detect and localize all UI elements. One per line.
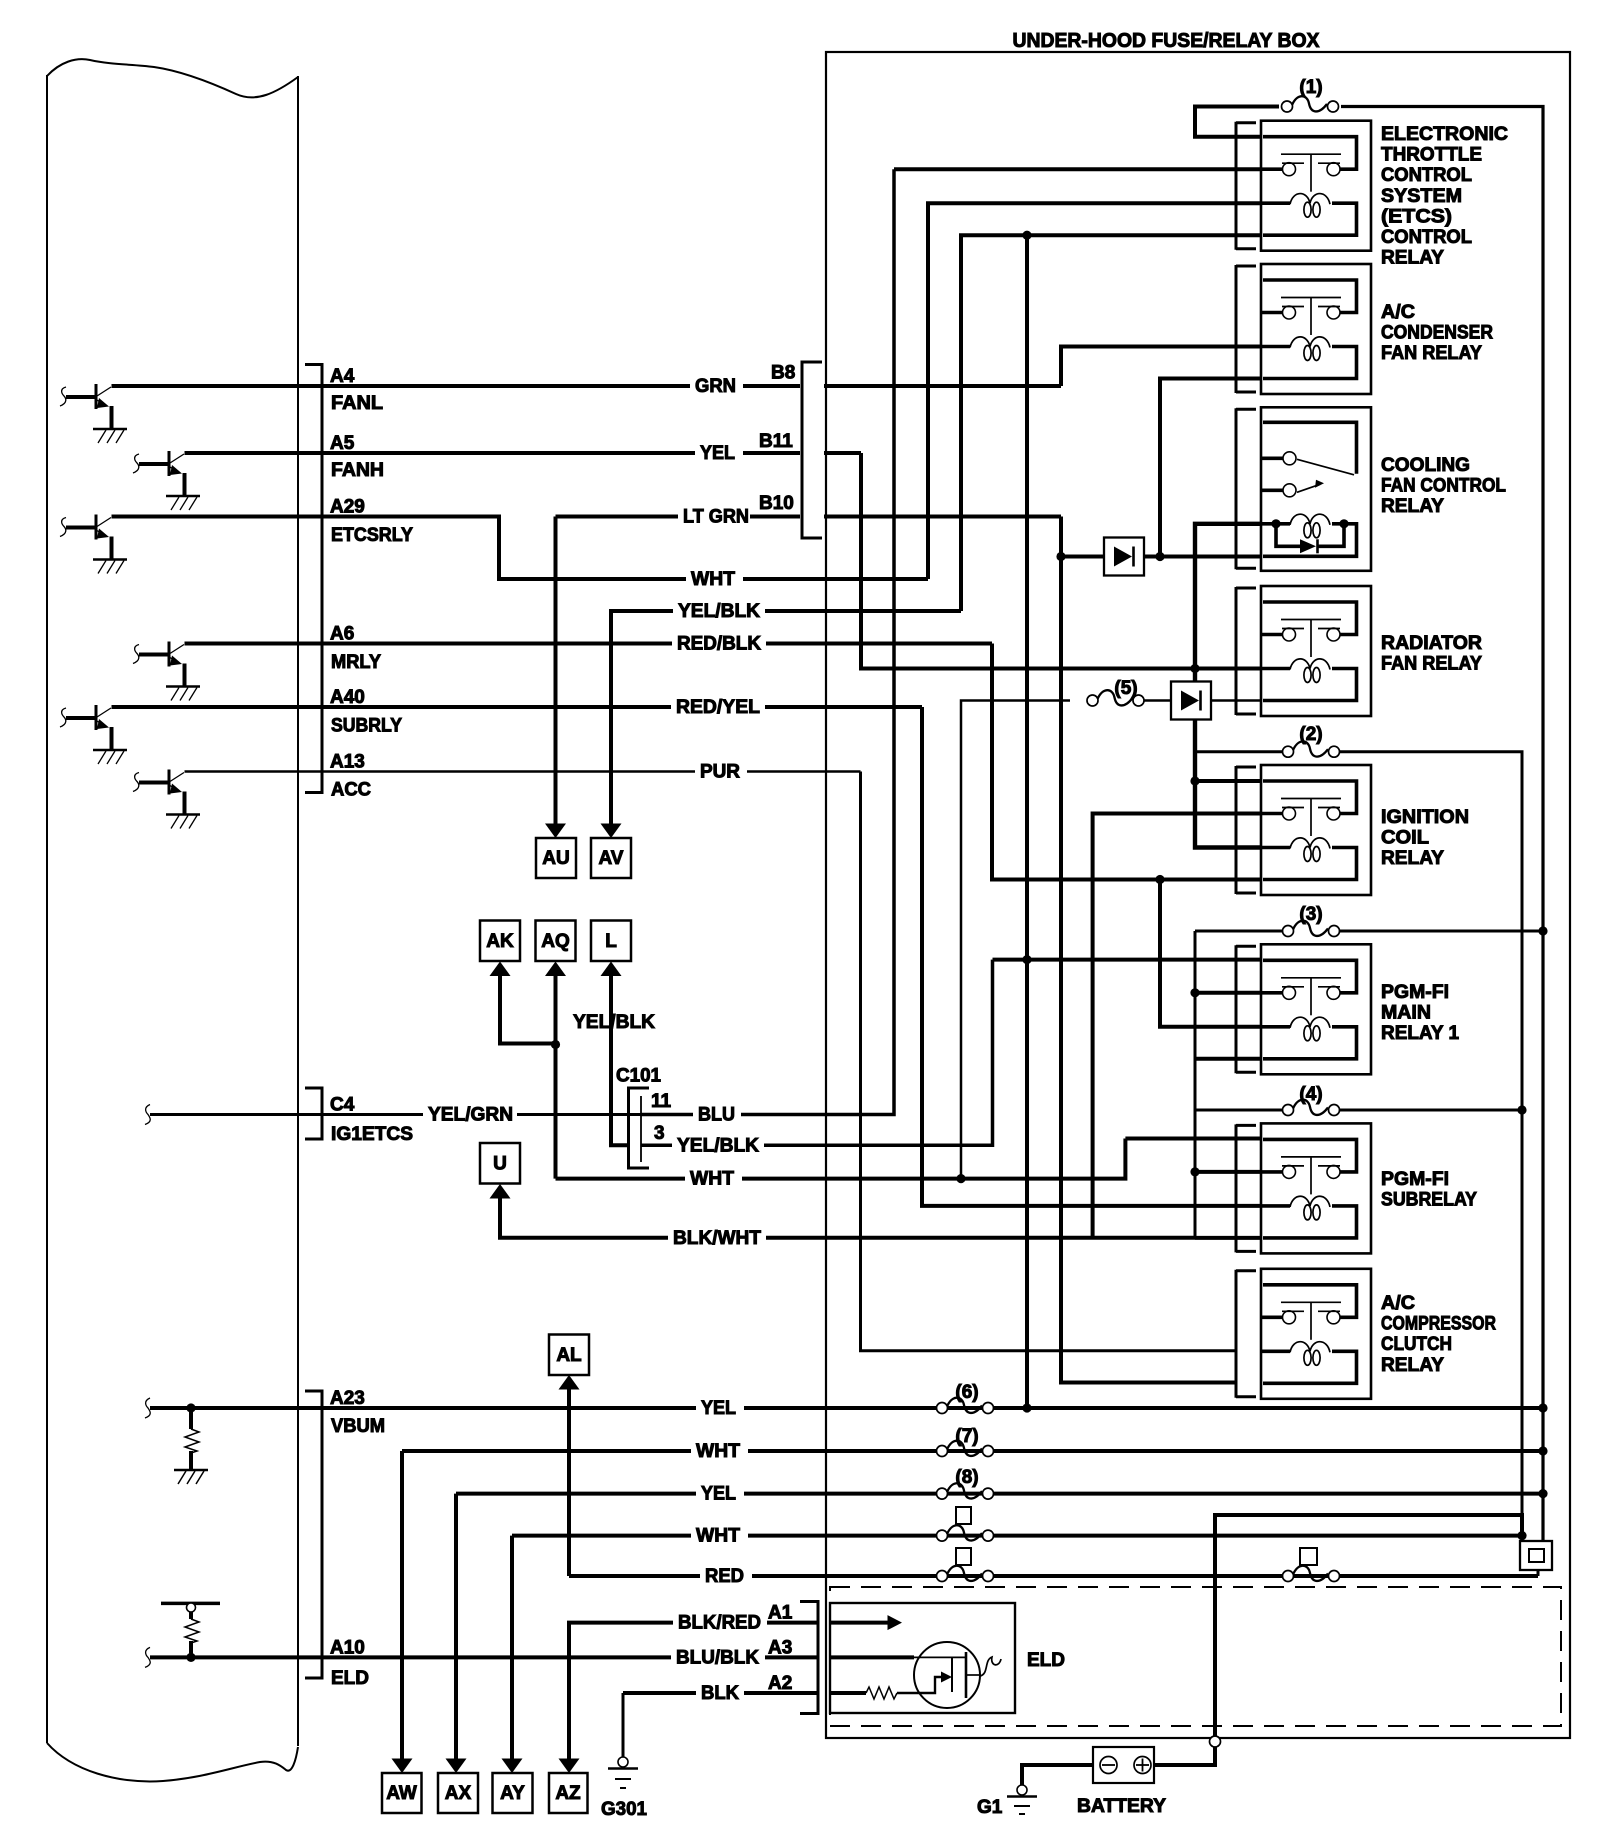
arrowhead into AQ (545, 962, 566, 977)
wire fuse5 to diode5 (1144, 699, 1261, 702)
wire L down to YEL/BLK C101 (611, 976, 629, 1145)
connector box U (480, 1143, 520, 1184)
wire WHT row2 (402, 1449, 1543, 1453)
wire YEL row3 (456, 1492, 1543, 1496)
fuse (1) (1282, 96, 1339, 112)
arrowhead into AX (446, 1759, 467, 1774)
svg-text:B10: B10 (759, 493, 794, 514)
svg-text:UNDER-HOOD FUSE/RELAY BOX: UNDER-HOOD FUSE/RELAY BOX (1013, 30, 1321, 52)
wire subrelay top row (1125, 1137, 1261, 1141)
wire ignition top row (1195, 779, 1261, 783)
svg-text:AL: AL (556, 1345, 582, 1366)
node main top branch (1022, 955, 1031, 964)
fuse on WHT row4 (937, 1525, 994, 1541)
wire A10 ELD BLU/BLK (150, 1655, 818, 1659)
fuse (3) (1283, 921, 1340, 937)
wire YEL/BLK C101-3 (641, 960, 993, 1146)
arrowhead into AZ (559, 1759, 580, 1774)
fuse (8) (937, 1483, 994, 1499)
svg-text:WHT: WHT (696, 1441, 740, 1462)
wire AW drop (400, 1451, 404, 1759)
svg-text:AU: AU (542, 848, 569, 869)
svg-text:(ETCS): (ETCS) (1381, 206, 1452, 227)
node subrelay contact junction (1190, 1167, 1199, 1176)
ELD unit box (830, 1603, 1015, 1713)
wire WHT lower row (556, 1139, 1126, 1179)
arrowhead into AV (601, 824, 622, 839)
bracket ETCS relay (1236, 122, 1256, 250)
svg-text:RELAY 1: RELAY 1 (1381, 1023, 1459, 1044)
wire RED row5 (569, 1574, 1538, 1578)
svg-text:(1): (1) (1299, 77, 1322, 98)
node A23 resistor junction (186, 1403, 195, 1412)
curly at A23 wire end (145, 1398, 150, 1418)
diode D5 (1171, 682, 1211, 720)
ECM/PCM left band torn outline (47, 59, 298, 1781)
node ETCS bottom branch (1022, 231, 1031, 240)
wire AL down to RED row (567, 1390, 571, 1577)
diode D1 (1104, 538, 1144, 576)
svg-text:FAN RELAY: FAN RELAY (1381, 654, 1482, 675)
wire A1 BLK/RED (569, 1623, 818, 1759)
svg-text:A13: A13 (330, 752, 365, 773)
wire A23 VBUM YEL row (150, 1406, 1543, 1410)
wire condenser bottom row (1160, 379, 1261, 557)
bracket main relay (1236, 945, 1256, 1073)
bracket cooling fan relay (1236, 408, 1256, 569)
wire fuse1 feed top (1195, 107, 1279, 137)
wire LT GRN down the box (1061, 517, 1237, 1383)
wire battery positive (1154, 1747, 1215, 1765)
svg-text:C101: C101 (616, 1066, 661, 1087)
svg-text:RADIATOR: RADIATOR (1381, 633, 1482, 654)
connector C101 bracket (629, 1088, 650, 1168)
svg-text:CONTROL: CONTROL (1381, 227, 1472, 248)
svg-text:A40: A40 (330, 687, 365, 708)
connector square above WHT4 (956, 1507, 971, 1524)
node AK/AQ junction (551, 1040, 560, 1049)
svg-text:U: U (493, 1154, 507, 1175)
connector C101 mating line (640, 1096, 642, 1162)
wire AX drop (454, 1494, 458, 1759)
relay symbol ETCS control relay (1261, 121, 1371, 251)
svg-text:COMPRESSOR: COMPRESSOR (1381, 1314, 1496, 1335)
svg-text:3: 3 (654, 1123, 665, 1144)
svg-text:A10: A10 (330, 1638, 365, 1659)
svg-text:RELAY: RELAY (1381, 848, 1444, 869)
ELD current arrow A1 (830, 1621, 888, 1625)
svg-text:PGM-FI: PGM-FI (1381, 1169, 1449, 1190)
wire diode1 row to cooling bottom (1061, 555, 1261, 559)
svg-text:IGNITION: IGNITION (1381, 807, 1469, 828)
wire main relay contact row (1195, 991, 1261, 995)
svg-text:A2: A2 (768, 1673, 792, 1694)
bracket radiator relay (1236, 587, 1256, 715)
connector box AX (438, 1773, 478, 1813)
wire YEL/BLK branch down (1025, 235, 1029, 1408)
svg-text:IG1ETCS: IG1ETCS (331, 1124, 413, 1145)
svg-text:CONDENSER: CONDENSER (1381, 323, 1493, 344)
connector box AZ (549, 1773, 588, 1813)
svg-text:A5: A5 (330, 433, 355, 454)
svg-text:RED: RED (705, 1566, 744, 1587)
node branch at YEL row (1022, 1403, 1031, 1412)
svg-text:L: L (605, 931, 617, 952)
wire ETCS bottom row (961, 235, 1261, 611)
svg-text:ACC: ACC (331, 780, 371, 801)
svg-text:B8: B8 (771, 363, 795, 384)
bracket ignition relay (1236, 766, 1256, 894)
svg-text:(7): (7) (955, 1426, 978, 1447)
svg-text:YEL: YEL (700, 443, 735, 464)
bracket condenser relay (1236, 265, 1256, 393)
svg-text:WHT: WHT (690, 1169, 734, 1190)
wire RED/YEL down to subrelay coil (922, 707, 1261, 1206)
wire WHT row4 (512, 1534, 1522, 1538)
connector square above RED (956, 1548, 971, 1565)
wire branch to main coil (1160, 880, 1261, 1027)
svg-text:A4: A4 (330, 366, 355, 387)
fuse (7) (937, 1441, 994, 1457)
node ignition top junction (1190, 776, 1199, 785)
svg-text:ELECTRONIC: ELECTRONIC (1381, 124, 1508, 145)
ground G301 (608, 1757, 638, 1788)
wire main relay top row (993, 958, 1262, 962)
svg-text:BLK: BLK (701, 1683, 739, 1704)
node A10 resistor junction (186, 1653, 195, 1662)
wire B10 LT GRN (556, 515, 801, 519)
relay symbol PGM-FI main relay 1 (1261, 944, 1371, 1074)
svg-text:11: 11 (651, 1091, 672, 1112)
wire fuse1 to right feed (1341, 107, 1543, 1542)
terminal circle at box bottom (1210, 1736, 1221, 1747)
svg-text:YEL: YEL (701, 1398, 736, 1419)
connector box L (591, 921, 631, 962)
wire YEL down to fan coils feed (861, 453, 1261, 669)
relay symbol PGM-FI subrelay (1261, 1123, 1371, 1253)
wire A5 FANH YEL (185, 451, 801, 455)
svg-text:YEL: YEL (701, 1484, 736, 1505)
wire subrelay contact row (1195, 1170, 1261, 1174)
connector box AQ (536, 921, 576, 962)
wire BLK/WHT to U (500, 1199, 1195, 1238)
node YEL row3 right (1538, 1489, 1547, 1498)
wire fuse3 to right (1340, 930, 1543, 933)
wire A6 MRLY RED/BLK (185, 642, 993, 646)
arrowhead into AU (545, 824, 566, 839)
curly at C4 wire end (145, 1105, 150, 1125)
svg-text:AQ: AQ (541, 931, 570, 952)
wire fuse4 row (1195, 1109, 1282, 1112)
node WHT row4 right (1517, 1531, 1526, 1540)
svg-text:A1: A1 (768, 1603, 793, 1624)
arrowhead into AK (490, 962, 511, 977)
wire subrelay bottom row (1195, 1236, 1261, 1240)
node fuse4 right vertical (1517, 1105, 1526, 1114)
svg-text:CLUTCH: CLUTCH (1381, 1334, 1452, 1355)
svg-text:AK: AK (486, 931, 514, 952)
node LT GRN diode junction (1056, 552, 1065, 561)
resistor pull at A23 with ground (174, 1410, 208, 1484)
wire fuse3 row (1195, 931, 1282, 1238)
arrowhead into U (490, 1184, 511, 1199)
svg-text:BATTERY: BATTERY (1077, 1796, 1166, 1817)
svg-text:AX: AX (445, 1783, 472, 1804)
wire fuse2 to right (1340, 752, 1522, 1541)
svg-text:G1: G1 (977, 1797, 1003, 1818)
relay symbol ignition coil relay (1261, 765, 1371, 895)
connector box AY (493, 1773, 533, 1813)
arrowhead into AL (559, 1375, 580, 1390)
wire RED to junction block (1537, 1570, 1540, 1576)
wire ignition switch out (1093, 814, 1261, 1238)
wire BLU C101-11 (641, 169, 894, 1114)
svg-text:A23: A23 (330, 1388, 365, 1409)
svg-text:YEL/BLK: YEL/BLK (573, 1012, 655, 1033)
svg-text:RELAY: RELAY (1381, 248, 1444, 269)
connector box AW (382, 1773, 422, 1813)
svg-text:A6: A6 (330, 624, 354, 645)
wire A2 BLK (623, 1691, 818, 1695)
svg-text:(3): (3) (1299, 904, 1322, 925)
svg-text:B11: B11 (759, 431, 793, 452)
connector square above RED right (1300, 1548, 1317, 1565)
transistor Q6 ACC driver (133, 770, 200, 829)
wire AV YEL/BLK (611, 611, 961, 824)
svg-text:THROTTLE: THROTTLE (1381, 145, 1482, 166)
wire A13 ACC PUR (185, 770, 861, 773)
svg-text:BLU/BLK: BLU/BLK (676, 1648, 759, 1669)
connector box AK (480, 921, 520, 962)
svg-text:RED/YEL: RED/YEL (676, 697, 760, 718)
B connector bracket B8-B10 (802, 362, 822, 538)
svg-text:CONTROL: CONTROL (1381, 165, 1472, 186)
transistor Q1 FANL driver (60, 384, 127, 443)
svg-text:(5): (5) (1114, 678, 1137, 699)
fuse (2) (1283, 741, 1340, 757)
svg-text:VBUM: VBUM (331, 1416, 385, 1437)
svg-text:WHT: WHT (691, 569, 735, 590)
svg-text:WHT: WHT (696, 1526, 740, 1547)
svg-text:ELD: ELD (1027, 1650, 1065, 1671)
svg-text:MAIN: MAIN (1381, 1003, 1431, 1024)
svg-text:AY: AY (500, 1783, 525, 1804)
node radiator/cooling coil junction (1190, 664, 1199, 673)
svg-text:YEL/GRN: YEL/GRN (428, 1105, 513, 1126)
svg-text:AV: AV (599, 848, 624, 869)
svg-text:PGM-FI: PGM-FI (1381, 982, 1449, 1003)
wire BLK down to G301 (622, 1693, 625, 1757)
connector box AL (549, 1335, 589, 1376)
svg-text:(8): (8) (955, 1467, 978, 1488)
transistor Q4 MRLY driver (133, 642, 200, 701)
transistor Q5 SUBRLY driver (60, 705, 127, 764)
wire ETCS coil row (928, 203, 1261, 579)
svg-text:GRN: GRN (695, 376, 736, 397)
wire RED/BLK down to ignition bottom (992, 644, 1261, 880)
wire battery negative to G1 (1022, 1765, 1093, 1785)
relay symbol A/C compressor clutch relay (1261, 1269, 1371, 1399)
svg-text:A3: A3 (768, 1638, 792, 1659)
svg-text:G301: G301 (601, 1799, 647, 1820)
svg-text:ETCSRLY: ETCSRLY (331, 525, 413, 546)
svg-text:COOLING: COOLING (1381, 455, 1470, 476)
svg-text:RELAY: RELAY (1381, 1355, 1444, 1376)
ELD sensor MOSFET (830, 1642, 1001, 1708)
svg-text:RED/BLK: RED/BLK (677, 634, 761, 655)
wire ETCS switch out to BLU (894, 167, 1261, 171)
ground G1 (1007, 1785, 1037, 1814)
wire AY drop (510, 1536, 514, 1759)
curly at A10 wire end (145, 1647, 150, 1667)
resistor pull at A10 with bus tap (161, 1603, 220, 1655)
svg-text:FANL: FANL (331, 393, 383, 414)
node WHT fuse5 junction (956, 1174, 965, 1183)
ECM connector bracket A23-A10 (305, 1391, 322, 1678)
wire A4 FANL GRN (112, 384, 801, 388)
wire fuse2 row (1195, 750, 1282, 753)
node WHT row2 right (1538, 1446, 1547, 1455)
fuse (5) (1087, 690, 1144, 706)
fuse (6) (937, 1398, 994, 1414)
svg-text:RELAY: RELAY (1381, 496, 1444, 517)
wire GRN up to condenser coil (1061, 347, 1261, 387)
svg-text:BLK/RED: BLK/RED (678, 1613, 761, 1634)
wire A29 ETCSRLY to WHT (112, 517, 929, 580)
relay symbol cooling fan control relay (1261, 407, 1371, 571)
svg-text:A29: A29 (330, 497, 365, 518)
connector box AU (536, 838, 576, 878)
svg-text:(2): (2) (1299, 724, 1322, 745)
wire battery feed (1215, 1515, 1522, 1736)
ECM connector bracket C4 (305, 1088, 322, 1139)
dashed sub-box (830, 1587, 1561, 1726)
node YEL row right (1538, 1403, 1547, 1412)
fuse on RED row right (1283, 1566, 1340, 1582)
svg-text:A/C: A/C (1381, 302, 1415, 323)
wire AQ down to WHT row (554, 976, 558, 1179)
wire A40 SUBRLY RED/YEL (112, 705, 923, 709)
svg-text:FANH: FANH (331, 460, 384, 481)
node diode out junction (1155, 552, 1164, 561)
relay symbol A/C condenser fan relay (1261, 264, 1371, 394)
arrowhead into L (601, 962, 622, 977)
bracket compressor relay (1236, 1270, 1256, 1398)
svg-text:(4): (4) (1299, 1084, 1322, 1105)
svg-text:YEL/BLK: YEL/BLK (678, 601, 760, 622)
svg-text:MRLY: MRLY (331, 652, 381, 673)
svg-text:A/C: A/C (1381, 1293, 1415, 1314)
transistor Q2 FANH driver (133, 451, 200, 510)
node main contact junction (1190, 988, 1199, 997)
svg-text:YEL/BLK: YEL/BLK (677, 1136, 759, 1157)
svg-text:AZ: AZ (555, 1783, 581, 1804)
wire AU branch (554, 517, 558, 825)
arrowhead into AY (502, 1759, 523, 1774)
svg-text:COIL: COIL (1381, 828, 1429, 849)
under-hood fuse/relay box border (826, 52, 1570, 1738)
wire fuse5 row radiator bottom (961, 701, 1070, 1179)
fuse on RED row (937, 1566, 994, 1582)
svg-text:BLU: BLU (698, 1105, 735, 1126)
junction block double square (1520, 1541, 1552, 1570)
wire cooling coil feed riser (1195, 524, 1261, 848)
transistor Q3 ETCSRLY driver (60, 515, 127, 574)
svg-text:C4: C4 (330, 1095, 355, 1116)
wire AK to junction (500, 976, 556, 1044)
svg-text:SYSTEM: SYSTEM (1381, 186, 1462, 207)
node ignition bottom branch (1155, 875, 1164, 884)
svg-text:BLK/WHT: BLK/WHT (673, 1228, 761, 1249)
svg-text:SUBRLY: SUBRLY (331, 716, 402, 737)
relay symbol radiator fan relay (1261, 586, 1371, 716)
ECM connector bracket A4-A13 (305, 365, 322, 793)
fuse (4) (1283, 1100, 1340, 1116)
wire PUR down to compressor coil (861, 772, 1238, 1351)
battery (1093, 1747, 1154, 1783)
svg-text:AW: AW (386, 1783, 417, 1804)
wire fuse4 to right (1340, 1109, 1522, 1112)
svg-text:LT GRN: LT GRN (683, 507, 749, 528)
svg-text:ELD: ELD (331, 1668, 369, 1689)
svg-text:PUR: PUR (700, 762, 740, 783)
node fuse3 right vertical (1538, 926, 1547, 935)
svg-text:FAN CONTROL: FAN CONTROL (1381, 476, 1506, 497)
ELD connector bracket A1-A2 (800, 1602, 818, 1714)
svg-text:(6): (6) (955, 1382, 978, 1403)
wire C4 IG1ETCS YEL/GRN (150, 1113, 641, 1116)
wire main relay bottom row (1195, 1057, 1261, 1061)
connector box AV (591, 838, 631, 878)
svg-text:SUBRELAY: SUBRELAY (1381, 1190, 1477, 1211)
bracket subrelay (1236, 1124, 1256, 1252)
svg-text:FAN RELAY: FAN RELAY (1381, 343, 1482, 364)
arrowhead into AW (392, 1759, 413, 1774)
